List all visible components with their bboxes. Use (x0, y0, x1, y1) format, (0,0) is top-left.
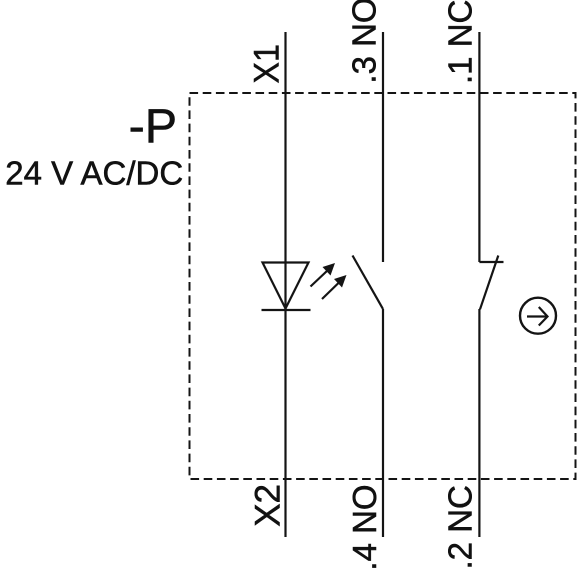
LED triangle (anode) (263, 263, 309, 309)
svg-text:.1 NC: .1 NC (441, 0, 478, 84)
svg-text:X1: X1 (248, 44, 287, 83)
svg-text:-P: -P (129, 99, 178, 153)
actuator arrow chevron (539, 307, 548, 326)
LED cathode bar (262, 309, 311, 311)
NC contact seat (horizontal stub) (479, 261, 503, 263)
svg-text:.3 NO: .3 NO (346, 0, 383, 84)
svg-text:.2 NC: .2 NC (441, 485, 478, 569)
NO contact movable blade (353, 256, 384, 310)
NC contact movable blade (480, 256, 498, 310)
wire X1-X2 (left vertical) (284, 32, 286, 537)
actuator arrow shaft (527, 315, 547, 317)
LED emission arrow 2 (322, 275, 347, 299)
device outline -P (dashed enclosure) (190, 93, 576, 479)
svg-text:.4 NO: .4 NO (346, 484, 383, 570)
wire .2 NC bottom (right vertical lower) (478, 309, 480, 537)
wire .3 NO top (middle vertical upper) (382, 32, 384, 262)
wire .4 NO bottom (middle vertical lower) (382, 309, 384, 537)
svg-text:X2: X2 (249, 484, 288, 527)
wire .1 NC top (right vertical upper) (478, 32, 480, 262)
svg-text:24 V AC/DC: 24 V AC/DC (5, 155, 183, 192)
LED emission arrow 1 (311, 263, 336, 287)
actuator symbol circle (520, 298, 556, 334)
